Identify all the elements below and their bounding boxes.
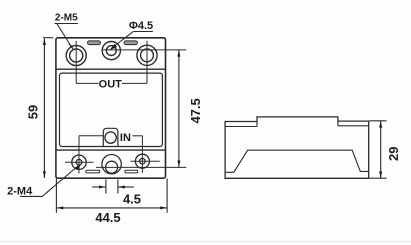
dim 4.5 left tick [105, 180, 107, 194]
dim 59 line [43, 39, 45, 178]
svg-text:59: 59 [25, 105, 40, 119]
front face inner rectangle [60, 73, 163, 146]
mount hole small circle 4.5 [106, 161, 118, 173]
side view outline [225, 117, 369, 178]
dim 47.5 line [178, 50, 180, 167]
wire IN bracket right vertical [141, 136, 143, 173]
arrow 4.5 pointing left [118, 186, 125, 189]
arrow 4.5 pointing right [99, 186, 106, 189]
dim 4.5 right arrow line [119, 186, 134, 188]
leader 2-M5 underline [55, 23, 79, 25]
svg-text:29: 29 [386, 146, 401, 160]
relay front view body outline [56, 38, 166, 178]
terminal screw left (M5) [66, 46, 86, 66]
svg-text:4.5: 4.5 [123, 192, 141, 207]
dim 44.5 right extension [166, 179, 168, 213]
wire OUT bracket left horizontal [76, 82, 98, 84]
svg-text:44.5: 44.5 [95, 210, 120, 225]
hole middle Phi4.5 [102, 42, 120, 60]
slot bottom-left [86, 170, 100, 173]
wire OUT bracket right horizontal [122, 82, 147, 84]
arrow 29 down [379, 171, 382, 178]
wire IN bracket right horizontal [132, 135, 142, 137]
svg-text:IN: IN [120, 132, 131, 144]
arrow 44.5 left [57, 206, 64, 209]
wire 47.5 top extension line [102, 49, 187, 51]
arrow 47.5 up [177, 50, 180, 57]
faint page rule at bottom [0, 240, 411, 242]
dim 29 line [380, 121, 382, 178]
wire OUT bracket left vertical [75, 41, 77, 84]
svg-text:2-M5: 2-M5 [55, 13, 78, 24]
input screw right (M4) [135, 154, 149, 168]
input screw left (M4) [72, 155, 86, 169]
dim 29 bottom extension [370, 177, 387, 179]
mount hole big circle bottom middle [102, 155, 121, 174]
wire crosshair right screw [131, 160, 160, 162]
leader 2-M4 underline [20, 195, 42, 197]
arrow 29 up [379, 121, 382, 128]
wire OUT bracket right vertical [146, 41, 148, 84]
wire 47.5 bottom extension line [96, 166, 186, 168]
wire IN bracket left vertical [78, 136, 80, 174]
LED window tab [103, 128, 118, 146]
terminal screw right (M5) [137, 45, 157, 65]
slot bottom-right [125, 170, 138, 173]
leader Phi4.5 underline [133, 31, 153, 33]
side view right lip line [338, 125, 369, 127]
arrowhead 2-M5 [68, 44, 74, 52]
dim 4.5 right tick [117, 180, 119, 194]
LED circle [105, 132, 116, 143]
dim 29 top extension [370, 120, 387, 122]
wire crosshair left screw [65, 161, 94, 163]
arrow 47.5 down [177, 161, 180, 168]
leader 2-M4 diagonal [42, 166, 78, 197]
arrow 44.5 right [160, 206, 167, 209]
dim 4.5 left arrow line [92, 186, 105, 188]
svg-text:Φ4.5: Φ4.5 [129, 20, 153, 32]
svg-text:47.5: 47.5 [188, 98, 203, 123]
arrowhead 2-M4 [75, 164, 81, 170]
arrowhead Phi4.5 [109, 44, 117, 50]
arrow 59 down [43, 171, 46, 178]
dim 44.5 left extension [55, 179, 57, 213]
side view left lip line [225, 126, 257, 128]
svg-text:2-M4: 2-M4 [7, 186, 33, 198]
svg-text:OUT: OUT [99, 79, 123, 91]
wire IN bracket left horizontal [79, 135, 103, 137]
dim 44.5 line [57, 207, 167, 209]
dim 59 top extension [43, 37, 53, 39]
arrow 59 up [43, 38, 46, 45]
wire top band bottom edge [56, 68, 166, 70]
leader Phi4.5 diagonal [112, 32, 133, 49]
side view base recess [225, 150, 369, 172]
wire bottom band top edge [56, 149, 166, 151]
slot top-left [88, 41, 101, 45]
slot top-right [124, 41, 137, 45]
leader 2-M5 diagonal [57, 24, 72, 49]
